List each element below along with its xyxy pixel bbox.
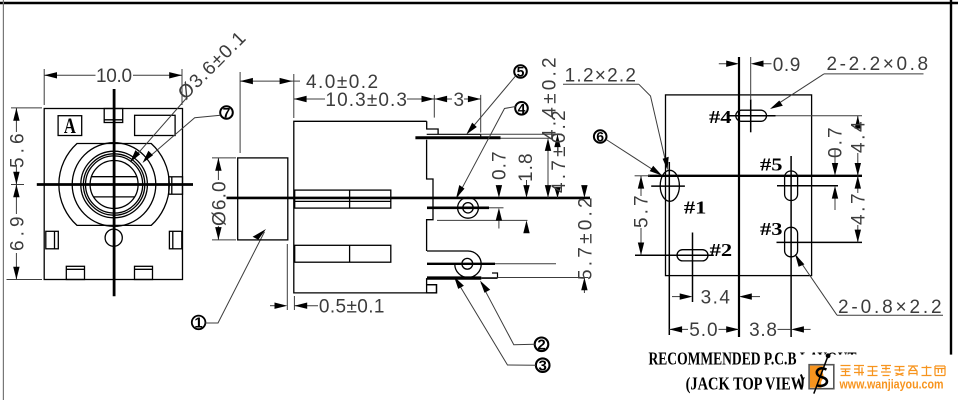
pad #5/#3 vertical tick [790,156,792,337]
svg-text:6: 6 [596,129,604,145]
pad #2 vertical tick [692,233,694,303]
dimension 5.0 [669,328,739,330]
front view body outline [44,109,182,280]
logo dot [826,353,831,358]
bottom tab left [66,266,84,279]
pad #5 horizontal tick [777,185,838,187]
svg-text:(JACK TOP VIEW): (JACK TOP VIEW) [686,373,811,393]
bottom pin curl [455,251,481,277]
outer boss with flats [59,144,169,226]
svg-text:5: 5 [517,64,525,80]
pad #1 horizontal tick [651,185,685,187]
side view centerline [227,197,591,200]
watermark cn text row [0,0,1,1]
svg-text:4.4: 4.4 [849,121,870,153]
svg-text:10.0: 10.0 [96,66,132,87]
dimension 6.9 [7,185,43,280]
bottom pin top edge [427,250,468,252]
right side tab [169,231,181,249]
dimension 5.7 (pcb) [635,176,650,256]
right middle tab [169,177,183,194]
svg-text:4: 4 [518,100,526,116]
svg-text:7: 7 [223,105,231,121]
pad #3 [785,227,798,256]
dimension 0.9 [719,57,772,99]
pad #1 vertical tick [668,162,670,335]
bottom pin mid thick line [427,263,495,265]
top pin ref line upper [481,133,562,135]
lower contact slot [295,245,391,262]
svg-text:0.7: 0.7 [826,128,847,158]
svg-text:0.9: 0.9 [773,55,800,76]
middle pin outer circle [458,197,479,218]
svg-text:4.7: 4.7 [849,194,870,225]
right middle tab inner line [171,177,173,194]
pad #1 [660,170,679,201]
remnant sliver of ) glyph [801,375,803,390]
balloon 6 [594,129,662,176]
svg-text:1: 1 [194,315,202,332]
top center notch [104,109,123,123]
dimension 0.7 (pcb) [834,150,836,210]
body right edge upper [427,121,438,134]
simulated chinese chars [841,366,946,376]
hole chamfer chord top [92,176,137,178]
svg-text:#3: #3 [760,219,783,239]
dimension 5.6 [11,108,42,185]
pad #5 [785,171,798,201]
bottom pin inner circle [462,258,473,269]
svg-text:#1: #1 [684,198,707,218]
pcb vertical centerline [738,57,740,337]
polarity mark A box [58,116,82,136]
ring 3 [86,156,143,213]
white cover box of watermark lower [805,372,958,400]
bottom pin end step [492,273,498,278]
top notch inner line [104,119,123,121]
top pin thick bar [415,136,500,139]
barrel [238,158,288,240]
dimension D6.0 [212,158,236,240]
dimension 3 [434,95,480,133]
svg-text:1.2×2.2: 1.2×2.2 [565,65,636,86]
dimension 0.7 (side) [498,185,500,229]
svg-text:www.wanjiayou.com: www.wanjiayou.com [839,376,944,391]
balloon 7 [143,105,233,164]
front view vertical centerline [113,89,116,296]
hole chamfer chord bottom [94,196,135,198]
ref line 1.8 [437,219,528,221]
boss step circle [72,143,156,227]
dimension 0.5+-0.1 [270,244,318,310]
dimension 4.4 (pcb) [776,116,863,176]
dimension 4.7+-0.2 (side) [557,134,559,198]
dimension 4.7 (pcb) [857,176,859,243]
bottom pin ref ext right [498,277,589,279]
leader for D3.6 [132,98,187,161]
ring 1 [81,151,148,218]
right side tab inner line [172,231,174,249]
balloon 4 [456,100,528,198]
bottom tab left inner line [66,268,84,270]
body right edge lower [426,278,428,285]
middle pin ref ext [489,207,504,209]
dimension 10.0 [44,69,182,105]
bottom pin thick bar [427,276,481,279]
pad #4 vertical tick [750,99,752,132]
svg-text:3.4: 3.4 [701,287,731,308]
body right edge mid [427,140,433,251]
middle pin thick line [427,207,489,210]
top pin thin top edge [427,133,481,135]
top right slot [135,115,176,135]
small pin hole below [105,229,122,246]
jack hole [90,161,138,209]
svg-text:#5: #5 [760,154,783,174]
balloon 2 [480,281,548,354]
pad #2 [677,250,708,261]
pad #2 horizontal tick [635,254,714,256]
sheet frame left border [2,0,4,400]
top pin ref line lower [501,137,553,139]
front view horizontal centerline [37,183,193,186]
svg-text:#2: #2 [710,240,733,260]
svg-text:10.3±0.3: 10.3±0.3 [325,90,406,111]
dimension 4.0+-0.2 [240,72,300,153]
left side tab inner line [54,231,56,249]
svg-text:0.7: 0.7 [490,152,511,180]
ring 2 [83,154,144,215]
white cover box of watermark upper [800,355,958,372]
dimension 3.8 [778,328,811,330]
svg-text:5.7±0.2: 5.7±0.2 [576,198,597,280]
svg-text:#4: #4 [709,107,732,127]
svg-text:Ø3.6±0.1: Ø3.6±0.1 [174,28,250,104]
svg-text:2: 2 [537,337,545,354]
sheet frame right border [950,0,952,400]
bottom tab right inner line [135,268,153,270]
pcb horizontal centerline [648,175,862,177]
logo diagonal line [814,356,828,393]
svg-text:5.7: 5.7 [632,196,653,228]
svg-text:Ø6.0: Ø6.0 [209,182,230,226]
bottom right notch [427,285,437,293]
balloon 3 [454,277,550,375]
lower contact slot divider [349,245,351,262]
bottom tab right [135,266,153,279]
svg-text:5.0: 5.0 [689,320,717,341]
dimension 4.4+-0.2 (side) [547,145,549,198]
upper contact slot [295,190,391,208]
body outline [294,121,437,293]
top pin end [480,134,482,137]
dimension 10.3+-0.3 [294,95,435,118]
logo square [809,365,834,389]
dimension 1.8 (side) [526,180,528,233]
logo orange fill [810,366,824,388]
dimension 3.4 [672,296,760,298]
logo S stroke bold [817,368,827,386]
pad #4 horizontal tick [727,115,776,117]
svg-text:0.5±0.1: 0.5±0.1 [319,297,384,318]
pcb outline [666,95,812,276]
svg-text:A: A [64,113,76,138]
bottom pin mid ext [495,263,556,265]
upper contact slot inner line [295,200,391,202]
bottom pin tail [481,277,497,279]
svg-text:3: 3 [539,357,547,374]
svg-text:3: 3 [454,90,464,111]
svg-text:3.8: 3.8 [749,320,776,341]
dimension 5.7+-0.2 (side) [583,186,585,293]
sheet frame top border [0,2,958,5]
pad #3 horizontal tick [777,241,863,243]
svg-text:5.6: 5.6 [7,134,28,168]
balloon 5 [466,64,527,135]
balloon 1 [192,229,266,332]
pad #4 [736,110,767,121]
svg-text:6.9: 6.9 [7,217,28,251]
left side tab [46,231,59,249]
middle pin inner circle [463,203,473,213]
upper contact slot divider [349,190,351,208]
svg-text:2-2.2×0.8: 2-2.2×0.8 [827,54,928,75]
svg-text:1.8: 1.8 [516,154,537,182]
